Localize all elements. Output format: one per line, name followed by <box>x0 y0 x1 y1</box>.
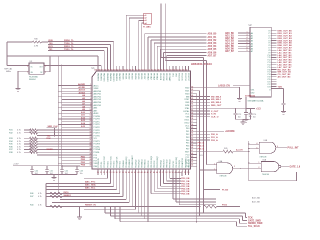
svg-text:AD2_B2: AD2_B2 <box>208 39 218 42</box>
svg-text:12: 12 <box>90 115 92 117</box>
svg-text:P63: P63 <box>186 137 189 139</box>
svg-text:AD0_B0: AD0_B0 <box>208 33 218 36</box>
NAND gate U5A 74HC00 <box>249 159 289 177</box>
svg-text:43: 43 <box>138 171 140 174</box>
wire OSC vertical to sheet top B <box>165 3 206 164</box>
svg-text:P90/TX2: P90/TX2 <box>173 161 175 168</box>
svg-text:53: 53 <box>169 172 171 174</box>
buffer U2 74ABT16244 box <box>249 25 272 97</box>
wire ABC_PTC row <box>46 175 111 184</box>
svg-text:27: 27 <box>90 156 92 158</box>
capacitor C79 with ground <box>243 109 252 123</box>
svg-text:MD0: MD0 <box>185 93 189 95</box>
svg-text:OSC1: OSC1 <box>184 120 189 122</box>
svg-text:P80/CS0: P80/CS0 <box>148 161 150 168</box>
svg-text:PG0/CS4: PG0/CS4 <box>178 73 180 81</box>
net label +HCORE <box>197 131 236 133</box>
svg-text:62: 62 <box>191 107 193 109</box>
svg-text:P21/RX: P21/RX <box>94 144 101 146</box>
svg-text:P65: P65 <box>186 143 189 145</box>
svg-text:PG2/CS6: PG2/CS6 <box>184 73 186 81</box>
svg-text:AD1_B1: AD1_B1 <box>225 34 235 37</box>
svg-text:60: 60 <box>191 112 193 114</box>
svg-text:A1/RD: A1/RD <box>78 86 85 89</box>
svg-text:23: 23 <box>90 145 92 147</box>
wire P43 row <box>84 175 107 178</box>
svg-text:P23/SA: P23/SA <box>94 148 101 151</box>
svg-text:P86/TXD2: P86/TXD2 <box>167 160 169 168</box>
svg-text:AD4_B4: AD4_B4 <box>208 45 218 48</box>
net labels U1 right group C <box>197 133 219 142</box>
svg-text:PD6_DB: PD6_DB <box>181 194 190 196</box>
net label SER_CLK top of resistor cluster <box>47 126 59 137</box>
net labels JTAG bottom right <box>248 217 263 228</box>
svg-text:P73/D11: P73/D11 <box>107 161 109 168</box>
svg-text:57: 57 <box>191 121 193 123</box>
svg-text:TAL_SCLK: TAL_SCLK <box>248 225 260 228</box>
svg-text:VCC: VCC <box>185 125 190 127</box>
svg-text:4.7k: 4.7k <box>17 133 21 135</box>
svg-text:A3: A3 <box>251 40 253 43</box>
svg-text:A-3.3V: A-3.3V <box>236 148 243 151</box>
svg-text:13: 13 <box>90 117 92 119</box>
svg-text:AN5/P45: AN5/P45 <box>94 104 102 107</box>
svg-text:P77/D15: P77/D15 <box>120 161 122 168</box>
svg-text:A0/WR: A0/WR <box>78 83 85 86</box>
net labels U1 right group A <box>197 96 222 107</box>
svg-text:TI_ABC: TI_ABC <box>143 25 151 28</box>
svg-text:P61_A: P61_A <box>211 136 218 139</box>
wire row pin40 <box>52 175 129 202</box>
U2 part label <box>248 100 264 103</box>
svg-text:A2/CS: A2/CS <box>79 89 86 92</box>
net label TDO right of U2 <box>271 87 283 89</box>
wire long row with resistors R40 R44 <box>30 175 240 208</box>
svg-text:8: 8 <box>90 104 91 106</box>
ground below C73 C74 <box>240 122 245 125</box>
svg-text:A0: A0 <box>251 32 253 35</box>
svg-text:40: 40 <box>128 171 130 174</box>
diode D2 label <box>245 95 256 98</box>
svg-text:41: 41 <box>131 171 133 174</box>
svg-text:RESET_IN: RESET_IN <box>85 205 96 207</box>
wire crystal loop lower horizontal <box>7 56 98 66</box>
svg-text:52: 52 <box>166 172 168 174</box>
svg-text:P82/CS2: P82/CS2 <box>154 161 156 168</box>
svg-text:36: 36 <box>116 172 118 174</box>
svg-text:PD7/AN15: PD7/AN15 <box>144 159 147 168</box>
svg-text:61: 61 <box>191 110 193 112</box>
svg-text:HD64F2148TE10: HD64F2148TE10 <box>191 62 212 66</box>
svg-text:RXD1_TL: RXD1_TL <box>64 46 74 48</box>
svg-text:PF3/A19: PF3/A19 <box>156 73 159 80</box>
wire left vertical of crystal loop <box>6 42 8 65</box>
svg-text:R47: R47 <box>30 196 33 198</box>
svg-text:WAKE: WAKE <box>47 148 54 151</box>
svg-text:PB0: PB0 <box>94 166 98 168</box>
wire bus RXD/TXD rows into U1 top pins <box>48 40 114 66</box>
svg-text:58: 58 <box>184 172 186 174</box>
svg-text:66: 66 <box>191 95 193 97</box>
svg-text:C74: C74 <box>253 114 256 116</box>
wire bus and net labels U1 left lower pins <box>58 156 91 166</box>
svg-text:+3.3V: +3.3V <box>13 164 19 166</box>
resistor array R31-R38 4.7k <box>9 129 38 154</box>
svg-text:17: 17 <box>90 129 92 131</box>
wire MD1 down right <box>197 91 201 217</box>
svg-text:AVSS: AVSS <box>94 112 100 115</box>
ground tap on long row <box>77 206 82 220</box>
capacitors C73 C74 on XTAL rail <box>197 108 257 121</box>
svg-text:30: 30 <box>90 165 92 167</box>
svg-text:4.7k: 4.7k <box>38 193 42 195</box>
svg-text:D2 BAS16: D2 BAS16 <box>245 95 256 98</box>
svg-text:PE4/D4: PE4/D4 <box>134 73 136 79</box>
svg-text:PF0/A16: PF0/A16 <box>146 73 149 80</box>
svg-text:A1: A1 <box>251 34 253 37</box>
svg-text:R40: R40 <box>30 205 33 207</box>
svg-text:4.7k: 4.7k <box>17 146 21 148</box>
crystal oscillator U3 HC49 module box <box>27 61 46 74</box>
svg-text:P100: P100 <box>222 204 228 206</box>
svg-text:34: 34 <box>109 171 111 174</box>
svg-text:PULL_INT: PULL_INT <box>288 148 300 150</box>
svg-text:9: 9 <box>90 106 91 108</box>
net label LAB10 into U2 <box>218 85 250 88</box>
resistor R30 4.7M feedback <box>7 39 48 48</box>
svg-text:AD6_B6: AD6_B6 <box>225 48 235 51</box>
svg-text:R30: R30 <box>34 39 37 41</box>
svg-text:A3/AS: A3/AS <box>79 91 86 94</box>
svg-text:PA0/KIN0: PA0/KIN0 <box>96 73 99 81</box>
svg-text:OE1: OE1 <box>251 89 255 91</box>
svg-text:AN0/P40: AN0/P40 <box>94 90 102 93</box>
U1 right-side pin name texts <box>183 88 190 168</box>
svg-text:4.7k: 4.7k <box>17 130 21 132</box>
svg-text:SWDIO_SWD: SWDIO_SWD <box>248 223 263 225</box>
svg-text:59: 59 <box>187 172 189 174</box>
svg-text:49: 49 <box>156 171 158 174</box>
svg-text:OSC2: OSC2 <box>184 122 189 124</box>
svg-text:RXD0_TL: RXD0_TL <box>64 40 74 42</box>
svg-text:IRQ0: IRQ0 <box>64 192 70 194</box>
svg-text:74HC00: 74HC00 <box>262 174 269 176</box>
svg-text:67: 67 <box>191 92 193 94</box>
svg-text:MD_SEL1: MD_SEL1 <box>211 99 222 101</box>
svg-text:69: 69 <box>191 86 193 88</box>
svg-text:PA6/KIN6: PA6/KIN6 <box>115 73 118 81</box>
svg-text:PD0/AN8: PD0/AN8 <box>122 160 125 167</box>
svg-text:PE6/D6: PE6/D6 <box>140 73 142 79</box>
ground below C80 <box>281 112 286 115</box>
svg-text:PI-100: PI-100 <box>222 189 229 191</box>
resistor R46 row <box>30 175 120 195</box>
svg-text:P27: P27 <box>94 160 97 162</box>
svg-text:4.7M: 4.7M <box>34 45 39 47</box>
svg-text:46: 46 <box>147 171 149 174</box>
svg-text:PF6/CLK: PF6/CLK <box>165 73 167 81</box>
svg-text:P72/D10/TIOC: P72/D10/TIOC <box>104 155 106 167</box>
svg-text:P71/D9: P71/D9 <box>101 162 103 168</box>
svg-text:5: 5 <box>90 95 91 97</box>
net label TX2 in cluster <box>47 135 52 137</box>
svg-text:4.7k: 4.7k <box>17 144 21 146</box>
svg-text:P74/D12/TIOC: P74/D12/TIOC <box>110 155 112 167</box>
svg-text:NMI: NMI <box>186 96 190 98</box>
svg-text:VCC: VCC <box>185 114 190 116</box>
net labels column into buffer U2 left pins <box>225 32 250 53</box>
svg-text:ACK J0B: ACK J0B <box>252 200 260 203</box>
wire OSC vertical to sheet top A <box>161 3 204 213</box>
svg-text:4.7k: 4.7k <box>17 149 21 151</box>
U1 bottom-side pin name texts (vertical) <box>98 154 190 167</box>
svg-text:GN: GN <box>31 72 33 74</box>
svg-text:P93/ADTRG: P93/ADTRG <box>181 157 184 168</box>
svg-text:R45: R45 <box>224 148 227 150</box>
svg-text:48: 48 <box>153 171 155 174</box>
svg-text:28: 28 <box>90 159 92 161</box>
svg-text:AN1/P41: AN1/P41 <box>94 93 102 96</box>
label rows ACK <box>252 196 260 203</box>
svg-text:P64: P64 <box>186 140 189 142</box>
svg-text:44: 44 <box>141 171 143 174</box>
wire bus U1 left pins to resistor cluster <box>37 129 91 156</box>
svg-text:6: 6 <box>277 146 278 148</box>
svg-text:10n: 10n <box>238 117 241 119</box>
svg-text:9: 9 <box>247 50 248 52</box>
net labels U1 right group B <box>197 111 219 119</box>
svg-text:TCK: TCK <box>248 217 253 219</box>
svg-text:PD2/AN10: PD2/AN10 <box>128 159 131 168</box>
U1 part number label <box>191 62 212 66</box>
U3 footprint label <box>29 76 39 81</box>
svg-text:P60_A: P60_A <box>211 133 218 136</box>
svg-text:CLK_O: CLK_O <box>211 117 219 119</box>
svg-text:+HCORE: +HCORE <box>225 131 235 133</box>
svg-text:37: 37 <box>119 172 121 174</box>
svg-text:4.7k: 4.7k <box>17 138 21 140</box>
svg-text:P20/TX: P20/TX <box>94 141 101 143</box>
svg-text:P62_A: P62_A <box>211 139 218 142</box>
svg-text:X_IN: X_IN <box>211 114 216 116</box>
svg-text:PA2/TXD1: PA2/TXD1 <box>103 73 106 81</box>
svg-text:74HC08: 74HC08 <box>259 156 266 158</box>
svg-text:A5: A5 <box>251 45 253 48</box>
svg-text:54: 54 <box>172 171 174 174</box>
svg-text:P85/SCK2: P85/SCK2 <box>163 159 165 167</box>
svg-text:74HC08: 74HC08 <box>219 176 226 178</box>
svg-text:PE3/D3: PE3/D3 <box>131 73 133 79</box>
svg-text:PF4/IOR: PF4/IOR <box>159 73 161 81</box>
svg-text:PF1/A17: PF1/A17 <box>149 73 152 80</box>
svg-text:53: 53 <box>191 133 193 135</box>
AND gate U6A 74HC08 <box>199 160 262 177</box>
U1 top-side pin name texts (vertical) <box>96 73 188 82</box>
svg-text:P67: P67 <box>186 149 189 151</box>
svg-text:FWE: FWE <box>185 105 190 107</box>
wire bus bottom long rows to JTAG labels <box>105 175 247 226</box>
svg-text:PA4/KIN4: PA4/KIN4 <box>109 73 112 81</box>
svg-text:51: 51 <box>162 172 164 174</box>
svg-text:10: 10 <box>90 109 92 111</box>
svg-text:2: 2 <box>27 65 28 67</box>
svg-text:PD5/IRQ3: PD5/IRQ3 <box>139 160 141 168</box>
svg-text:32: 32 <box>103 172 105 174</box>
svg-text:TXD1_TL: TXD1_TL <box>64 49 74 51</box>
net label GATE_1.6 <box>290 166 301 169</box>
svg-text:PD4_DB: PD4_DB <box>181 187 190 190</box>
svg-text:P95/CLKO: P95/CLKO <box>188 159 190 168</box>
net label PI100 wire <box>204 189 229 191</box>
svg-text:11: 11 <box>90 112 92 114</box>
svg-text:56: 56 <box>191 124 193 126</box>
svg-text:P91/RX2/IRQ: P91/RX2/IRQ <box>176 156 178 167</box>
net label RX2 in cluster <box>47 138 52 140</box>
svg-text:GATE_SWD: GATE_SWD <box>248 219 261 222</box>
svg-text:4.7k: 4.7k <box>17 141 21 143</box>
svg-text:35: 35 <box>113 172 115 174</box>
svg-text:VCL: VCL <box>94 138 98 140</box>
svg-text:P75/D13: P75/D13 <box>114 161 116 168</box>
svg-text:PA5/SCK1: PA5/SCK1 <box>112 73 115 81</box>
svg-text:50: 50 <box>159 172 161 174</box>
svg-text:X_OUT: X_OUT <box>211 111 219 113</box>
svg-text:P60: P60 <box>186 128 189 130</box>
svg-text:1: 1 <box>90 84 91 86</box>
svg-text:ABC_SCL: ABC_SCL <box>85 187 96 190</box>
svg-text:19: 19 <box>90 134 92 136</box>
svg-text:10n: 10n <box>249 116 252 118</box>
wire MD2 to diode net <box>197 87 241 98</box>
svg-text:MD_SEL0: MD_SEL0 <box>211 96 222 98</box>
svg-text:P16/TX: P16/TX <box>94 133 101 135</box>
svg-text:XTAL: XTAL <box>185 107 190 110</box>
svg-text:P17/TD: P17/TD <box>94 135 101 137</box>
U1 left-side pin name texts <box>94 84 102 168</box>
svg-text:P63_B: P63_B <box>198 143 205 145</box>
svg-text:AVCC: AVCC <box>94 84 100 87</box>
svg-text:AD7_B7: AD7_B7 <box>208 54 218 57</box>
svg-text:AD2_B2: AD2_B2 <box>225 37 235 40</box>
svg-text:Y23: Y23 <box>267 86 270 88</box>
svg-text:P87/RXD2: P87/RXD2 <box>170 159 172 168</box>
wire crystal pin2 to U1 <box>7 64 101 67</box>
svg-text:TMP CA1: TMP CA1 <box>4 67 12 70</box>
svg-text:PG3/CS7: PG3/CS7 <box>187 73 189 81</box>
svg-text:22: 22 <box>90 142 92 144</box>
svg-text:ABC_PTC: ABC_PTC <box>85 181 96 184</box>
svg-text:P24/SL: P24/SL <box>94 152 100 154</box>
svg-text:3: 3 <box>45 65 46 67</box>
svg-text:45: 45 <box>144 171 146 174</box>
svg-text:4.7k: 4.7k <box>38 196 42 198</box>
net label PULL_INT <box>288 148 300 150</box>
svg-text:AS_OUT_B3: AS_OUT_B3 <box>278 76 292 79</box>
svg-text:52: 52 <box>191 136 193 138</box>
svg-text:AD5_B5: AD5_B5 <box>208 48 218 51</box>
svg-text:100: 100 <box>185 69 188 71</box>
svg-text:OUT: OUT <box>39 66 42 68</box>
net labels column AD bus <box>208 33 218 58</box>
svg-text:AD3_B3: AD3_B3 <box>225 40 235 43</box>
svg-text:PE5/D5: PE5/D5 <box>137 73 139 79</box>
svg-text:50: 50 <box>191 141 193 143</box>
wire U5A lower loop <box>249 172 297 181</box>
svg-text:ABC_SDA: ABC_SDA <box>85 184 96 187</box>
svg-text:TDO: TDO <box>278 87 283 89</box>
svg-text:P84/IRQ3: P84/IRQ3 <box>160 160 162 168</box>
svg-text:PE7/D7: PE7/D7 <box>143 73 145 79</box>
svg-text:38: 38 <box>122 172 124 174</box>
wire vertical bus left B <box>61 65 62 167</box>
wire crystal right lower pin <box>44 55 51 72</box>
svg-text:P81/CS1/IRQ6: P81/CS1/IRQ6 <box>151 156 153 168</box>
svg-text:P65_B: P65_B <box>198 149 205 151</box>
svg-text:GATE_1.6: GATE_1.6 <box>290 166 301 169</box>
svg-text:P11/TB: P11/TB <box>94 119 101 121</box>
svg-text:P22/SC: P22/SC <box>94 147 101 149</box>
svg-text:4: 4 <box>45 71 46 74</box>
svg-text:MD1: MD1 <box>185 91 189 93</box>
svg-text:AN3/P43: AN3/P43 <box>94 98 102 101</box>
svg-text:PE1/D1: PE1/D1 <box>125 73 127 79</box>
svg-text:PD1/AN9/IRQ: PD1/AN9/IRQ <box>125 156 128 168</box>
svg-text:P76/WAIT/CK: P76/WAIT/CK <box>116 156 119 168</box>
ground below crystal <box>15 87 20 91</box>
svg-text:P64_B: P64_B <box>198 145 205 148</box>
svg-text:P10/TA: P10/TA <box>94 115 101 118</box>
svg-text:AD4_B4: AD4_B4 <box>225 42 235 45</box>
svg-text:P62: P62 <box>186 134 189 136</box>
svg-text:WAKE1: WAKE1 <box>64 194 72 197</box>
svg-text:68: 68 <box>191 89 193 91</box>
svg-text:SN74ABT16244A: SN74ABT16244A <box>248 100 264 103</box>
svg-text:PE0/D0: PE0/D0 <box>121 73 123 79</box>
ground below decoupling caps <box>51 178 56 181</box>
svg-text:A7: A7 <box>251 50 253 53</box>
svg-text:55: 55 <box>191 127 193 129</box>
svg-text:PA7/KIN7: PA7/KIN7 <box>118 73 121 81</box>
svg-text:P66: P66 <box>186 146 189 148</box>
svg-text:15: 15 <box>90 123 92 125</box>
svg-text:42: 42 <box>134 171 136 174</box>
svg-text:OE2: OE2 <box>251 92 255 94</box>
wire ABC_SCL row <box>46 175 117 190</box>
svg-text:AD5_B5: AD5_B5 <box>225 45 235 48</box>
svg-text:PD3/AN11/ADT: PD3/AN11/ADT <box>131 154 134 167</box>
svg-text:7: 7 <box>90 101 91 103</box>
svg-text:P14/TK: P14/TK <box>94 127 101 129</box>
svg-text:4: 4 <box>247 36 248 39</box>
svg-text:AN2/P42: AN2/P42 <box>94 95 102 98</box>
svg-text:RES_OUT: RES_OUT <box>211 105 222 107</box>
svg-text:AD6_B6: AD6_B6 <box>208 51 218 54</box>
svg-text:A6: A6 <box>251 48 253 51</box>
wire U2 VCC stub +3.3 <box>246 97 261 111</box>
decoupling capacitors C40-C43 on +3.3V rail <box>13 164 83 177</box>
svg-text:33: 33 <box>106 172 108 174</box>
svg-text:PG1/CS5: PG1/CS5 <box>181 73 183 81</box>
svg-text:10u: 10u <box>80 173 83 175</box>
wire vertical rail pull-up group <box>45 183 47 206</box>
svg-text:PD4/IRQ2: PD4/IRQ2 <box>135 160 137 168</box>
svg-text:51: 51 <box>191 139 193 141</box>
svg-text:PF5/IOW: PF5/IOW <box>162 73 164 81</box>
svg-text:LAB10_EN: LAB10_EN <box>218 85 230 88</box>
U2 right-side pins and net labels <box>267 31 292 89</box>
wire MD0 down right <box>196 94 197 223</box>
svg-text:2: 2 <box>90 87 91 89</box>
